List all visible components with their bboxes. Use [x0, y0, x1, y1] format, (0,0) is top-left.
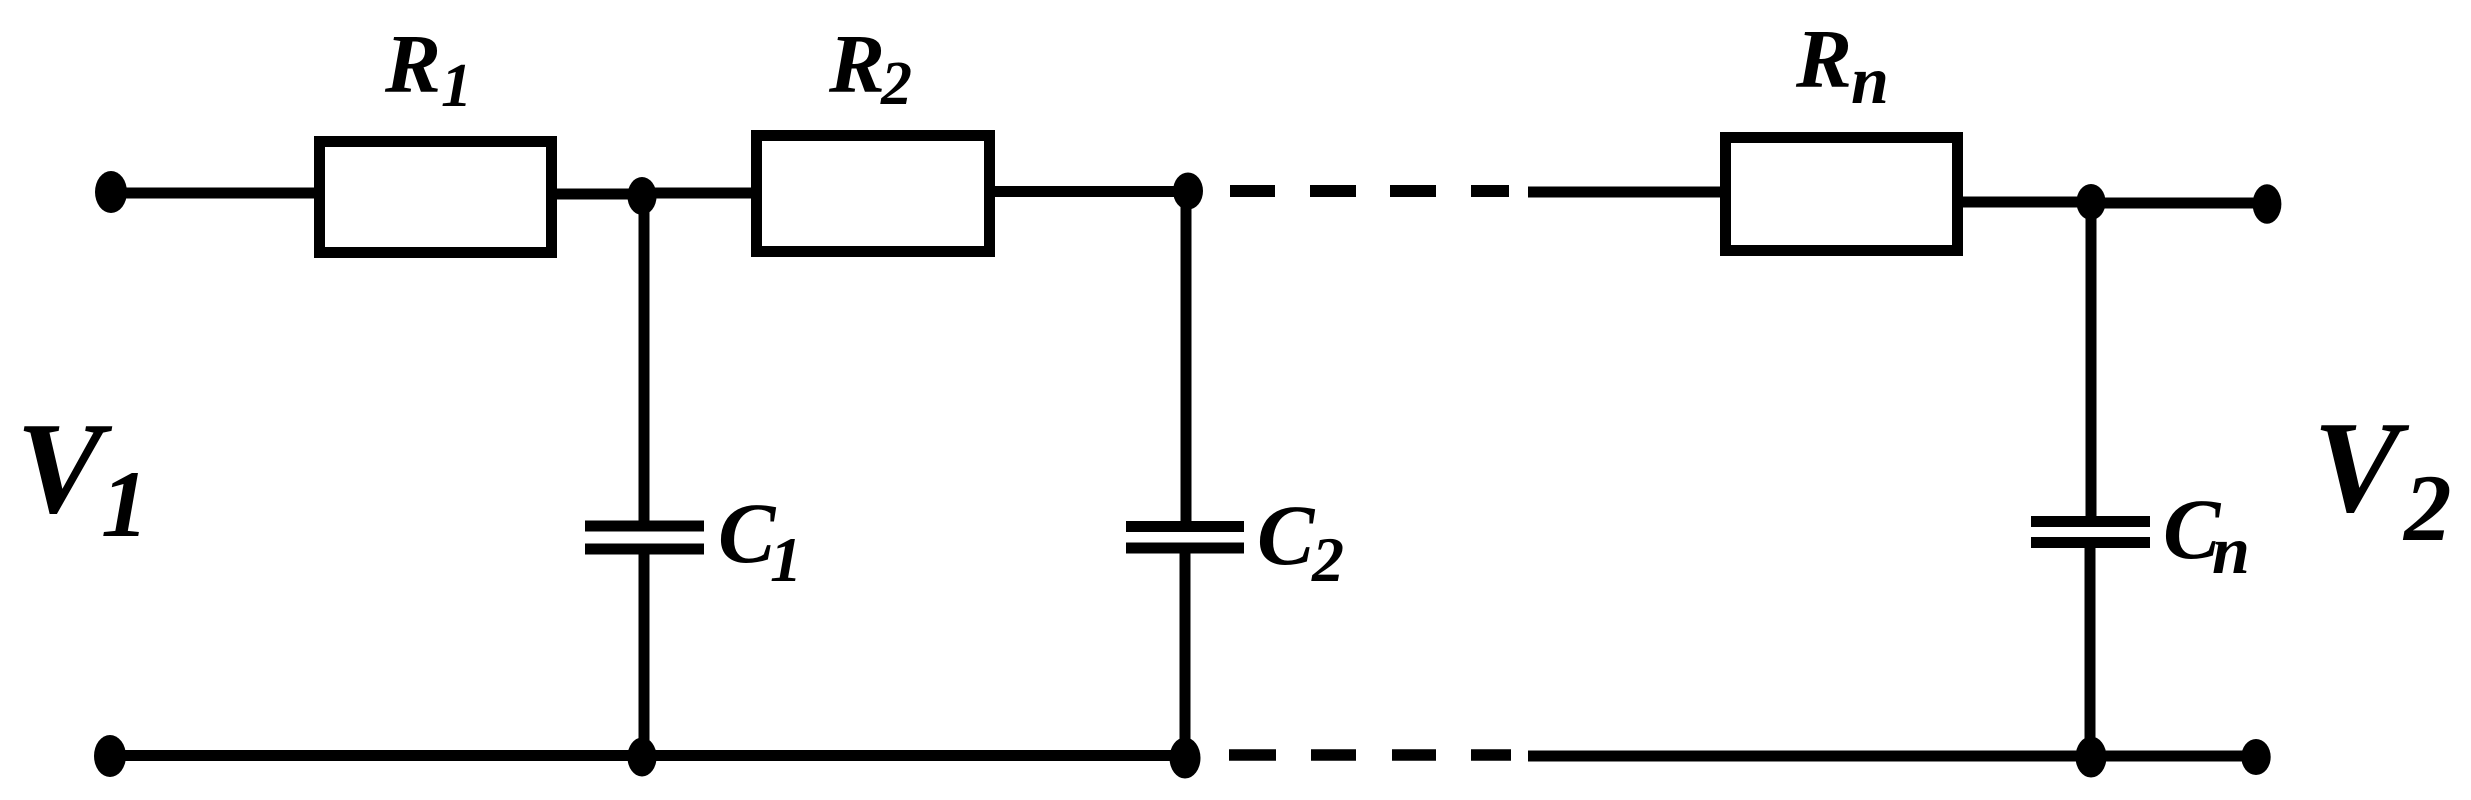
node C' junction dot (bottom of Cn): [2076, 737, 2107, 778]
label V1: [16, 396, 149, 557]
label C2: [1257, 487, 1344, 595]
wire C2 upper lead: [1181, 191, 1192, 521]
wire dashed continuation top rail: [1230, 185, 1509, 197]
svg-text:1: 1: [101, 451, 149, 557]
svg-text:n: n: [2212, 512, 2250, 588]
wire dashed continuation bottom rail: [1229, 749, 1511, 761]
capacitor C1: [585, 526, 704, 549]
node A junction dot (top of C1): [627, 177, 656, 215]
capacitor Cn: [2031, 522, 2150, 543]
wire node C to output terminal: [2091, 198, 2267, 209]
svg-text:2: 2: [2402, 455, 2452, 561]
label C1: [718, 485, 802, 595]
resistor R1: [320, 142, 552, 253]
wire bottom rail left: [110, 750, 1188, 761]
wire bottom rail right: [1528, 751, 2256, 762]
wire node A to R2: [642, 188, 756, 199]
wire Cn lower lead: [2085, 542, 2096, 757]
label V2: [2313, 395, 2452, 561]
resistor Rn: [1726, 138, 1958, 251]
svg-text:C: C: [718, 485, 777, 581]
svg-text:V: V: [16, 396, 113, 541]
wire Rn to node C: [1958, 197, 2091, 208]
svg-text:C: C: [1257, 487, 1316, 583]
svg-text:2: 2: [1311, 524, 1344, 595]
wire R2 to node B: [990, 186, 1188, 197]
label R2: [828, 18, 912, 118]
label Rn: [1795, 13, 1889, 118]
node V2- return terminal: [2241, 739, 2270, 775]
svg-text:1: 1: [770, 524, 802, 595]
wire C1 upper lead: [639, 196, 650, 521]
svg-text:2: 2: [880, 50, 912, 118]
svg-text:n: n: [1851, 42, 1889, 118]
node V1+ input terminal: [95, 171, 127, 213]
svg-text:R: R: [1795, 13, 1852, 106]
resistor R2: [757, 136, 990, 252]
node B junction dot (top of C2): [1173, 173, 1203, 210]
node C junction dot (top of Cn): [2076, 184, 2105, 220]
wire Cn upper lead: [2086, 202, 2097, 516]
wire C1 lower lead: [639, 549, 650, 755]
capacitor C2: [1126, 527, 1244, 549]
node V2+ output terminal: [2253, 184, 2282, 223]
label R1: [384, 18, 472, 120]
svg-text:R: R: [384, 18, 441, 111]
node V1- return terminal: [94, 735, 126, 777]
wire C2 lower lead: [1180, 548, 1191, 757]
label Cn: [2163, 481, 2250, 588]
svg-text:V: V: [2313, 395, 2410, 540]
wire R1 to node A: [552, 189, 648, 200]
svg-text:R: R: [828, 18, 885, 111]
node B' junction dot (bottom of C2): [1170, 738, 1201, 779]
node A' junction dot (bottom of C1): [627, 738, 656, 777]
wire top rail to Rn: [1528, 187, 1726, 198]
svg-text:1: 1: [441, 52, 472, 120]
wire input to R1: [111, 188, 320, 199]
